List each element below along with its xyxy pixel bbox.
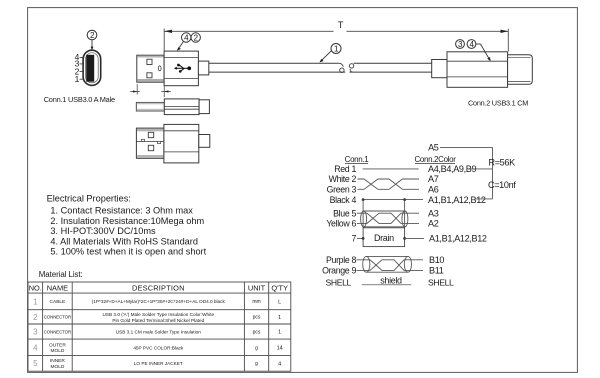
svg-text:USB 3.1 CM male Solder Type In: USB 3.1 CM male Solder Type Insulation: [116, 329, 202, 334]
svg-text:T: T: [338, 20, 344, 30]
svg-text:pcs: pcs: [253, 329, 261, 335]
svg-text:CONNECTOR: CONNECTOR: [44, 329, 71, 334]
svg-text:White 2: White 2: [329, 174, 357, 184]
cable left section: [209, 63, 345, 72]
svg-text:DESCRIPTION: DESCRIPTION: [132, 284, 185, 293]
svg-text:14: 14: [277, 346, 283, 352]
svg-text:pcs: pcs: [253, 315, 261, 321]
svg-text:NO.: NO.: [29, 284, 42, 293]
shielded pair Purple/Orange envelope: [363, 256, 412, 272]
svg-text:4. All Materials With RoHS Sta: 4. All Materials With RoHS Standard: [50, 236, 198, 246]
balloon 1: [320, 44, 342, 63]
balloon 3 4: [456, 40, 492, 62]
wiring header Conn.1: [345, 155, 370, 164]
svg-text:4: 4: [33, 343, 38, 352]
svg-text:INNER: INNER: [50, 358, 65, 364]
svg-text:C=10nf: C=10nf: [488, 180, 516, 190]
table row 3 connector: [33, 328, 281, 337]
svg-text:1: 1: [278, 330, 281, 336]
svg-text:Conn.2 USB3.1 CM: Conn.2 USB3.1 CM: [468, 99, 528, 108]
svg-text:1: 1: [33, 297, 38, 306]
svg-text:B10: B10: [429, 255, 444, 265]
svg-text:3. HI-POT:300V DC/10ms: 3. HI-POT:300V DC/10ms: [50, 226, 156, 236]
svg-text:Pin Gold Plated Terminal:Shell: Pin Gold Plated Terminal:Shell Nickel Pl…: [112, 318, 204, 323]
shield wire: [362, 284, 411, 286]
svg-text:MOLD: MOLD: [50, 348, 64, 354]
svg-text:A7: A7: [428, 174, 439, 184]
cable break symbol: [339, 63, 344, 67]
USB-C strain relief: [432, 60, 447, 78]
svg-text:MOLD: MOLD: [50, 364, 64, 370]
drain box: [363, 228, 405, 247]
USB-C metal tip: [508, 55, 533, 85]
cable right section: [350, 63, 432, 72]
twisted pair Blue/Yellow: [357, 213, 419, 223]
svg-text:Red 1: Red 1: [334, 164, 356, 174]
svg-text:7: 7: [351, 234, 356, 244]
svg-text:Conn.2Color: Conn.2Color: [414, 155, 456, 164]
svg-text:Conn.1 USB3.0 A Male: Conn.1 USB3.0 A Male: [44, 95, 115, 104]
svg-text:CABLE: CABLE: [50, 299, 66, 305]
svg-text:1: 1: [75, 74, 80, 84]
svg-text:1: 1: [278, 315, 281, 321]
svg-text:5. 100% test when it is open a: 5. 100% test when it is open and short: [50, 247, 206, 257]
svg-text:SHELL: SHELL: [428, 278, 454, 288]
svg-text:L: L: [278, 299, 281, 305]
balloon 2: [87, 30, 97, 50]
svg-text:Material List:: Material List:: [39, 270, 83, 279]
table row 2 connector: [33, 312, 281, 323]
connector face view Conn.1: [83, 50, 101, 85]
twisted pair Purple/Orange: [357, 260, 424, 271]
svg-text:USB 3.0 ('A') Male Solder Type: USB 3.0 ('A') Male Solder Type Insulatio…: [102, 312, 214, 317]
svg-text:2. Insulation Resistance:10Meg: 2. Insulation Resistance:10Mega ohm: [50, 216, 204, 226]
svg-text:A3: A3: [428, 208, 439, 218]
balloon 4 2: [177, 33, 201, 51]
svg-text:Black 4: Black 4: [330, 195, 357, 205]
svg-text:Conn.1: Conn.1: [345, 155, 370, 164]
svg-text:A1,B1,A12,B12: A1,B1,A12,B12: [429, 234, 487, 244]
pin 1: [75, 74, 85, 84]
table row 5 inner mold: [33, 358, 281, 370]
table header row: [29, 284, 288, 293]
wire drain to conn2: [405, 237, 424, 239]
svg-text:NAME: NAME: [47, 284, 68, 293]
svg-text:1: 1: [334, 45, 339, 54]
wiring header Conn.2 Color: [414, 155, 456, 164]
svg-text:Drain: Drain: [374, 233, 394, 243]
svg-text:A2: A2: [428, 219, 439, 229]
dimension shell length: [130, 84, 171, 97]
svg-text:mm: mm: [252, 299, 260, 305]
svg-text:4: 4: [278, 361, 281, 367]
USB-A plug side view shell: [137, 55, 164, 82]
svg-text:B11: B11: [429, 265, 444, 275]
svg-text:SHELL: SHELL: [326, 278, 352, 288]
shielded pair Blue/Yellow envelope: [361, 211, 408, 227]
svg-text:UNIT: UNIT: [248, 284, 266, 293]
pin 3: [75, 59, 84, 69]
dimension T: [164, 29, 508, 52]
USB-A plug bottom view: [136, 124, 209, 162]
svg-text:A5: A5: [428, 143, 439, 153]
svg-text:R=56K: R=56K: [489, 157, 516, 167]
svg-text:shield: shield: [380, 276, 402, 286]
USB-A plug side view overmold: [164, 51, 198, 86]
svg-text:OUTER: OUTER: [49, 342, 66, 348]
pin 2: [75, 66, 84, 76]
material list table grid: [28, 282, 291, 371]
svg-text:A6: A6: [428, 185, 439, 195]
USB-C overmold body: [447, 52, 508, 88]
table row 4 outer mold: [33, 342, 283, 354]
svg-text:Electrical Properties:: Electrical Properties:: [47, 194, 131, 204]
svg-text:Green 3: Green 3: [327, 185, 357, 195]
USB-A plug top view: [136, 99, 209, 115]
twisted pair White/Green: [358, 179, 420, 189]
svg-text:1. Contact Resistance: 3 Ohm m: 1. Contact Resistance: 3 Ohm max: [50, 206, 193, 216]
svg-text:g: g: [255, 345, 258, 351]
wire RC vertical: [492, 147, 494, 199]
svg-text:g: g: [255, 361, 258, 367]
wire GND row to C: [475, 198, 493, 200]
svg-text:LO PE INNER JACKET: LO PE INNER JACKET: [134, 361, 183, 366]
svg-text:A1,B1,A12,B12: A1,B1,A12,B12: [428, 195, 486, 205]
table row 1 cable: [33, 297, 281, 306]
svg-text:CONNECTOR: CONNECTOR: [44, 315, 71, 320]
svg-text:Blue 5: Blue 5: [333, 208, 356, 218]
svg-text:Purple 8: Purple 8: [326, 255, 356, 265]
svg-text:2: 2: [33, 313, 38, 322]
svg-text:2: 2: [90, 31, 95, 40]
electrical properties: [47, 194, 207, 257]
wire VBUS row to R: [468, 168, 493, 170]
USB-A plug strain relief cap: [198, 61, 208, 75]
svg-text:Yellow 6: Yellow 6: [326, 219, 356, 229]
svg-text:45P PVC COLOR:Black: 45P PVC COLOR:Black: [133, 345, 184, 350]
svg-text:Orange 9: Orange 9: [322, 265, 356, 275]
USB trident logo: [176, 65, 189, 71]
svg-text:3: 3: [33, 328, 38, 337]
drain verticals: [362, 200, 364, 228]
svg-text:5: 5: [33, 359, 38, 368]
svg-text:Q'TY: Q'TY: [271, 284, 288, 293]
wire A5 to R: [440, 146, 493, 148]
pin 4: [75, 52, 85, 62]
svg-text:(1P*32#+D+AL+Mylar)*2C+1P*30#+: (1P*32#+D+AL+Mylar)*2C+1P*30#+2C*24#+D+A…: [92, 299, 226, 304]
